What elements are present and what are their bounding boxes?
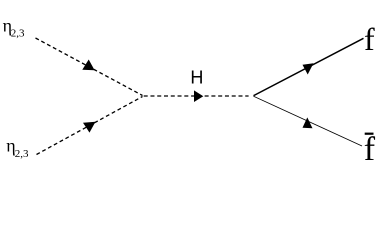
wire: top-left dashed propagator (eta to left vertex) [36, 38, 143, 96]
label eta_2,3 (top incoming scalar) [3, 16, 25, 40]
overbar of f-bar [365, 133, 374, 135]
svg-text:2,3: 2,3 [15, 148, 29, 160]
arrow on top-left propagator [82, 60, 94, 71]
label eta_2,3 (bottom incoming scalar) [6, 135, 29, 160]
wire: bottom-left dashed propagator (eta to left vertex) [37, 97, 143, 155]
svg-text:2,3: 2,3 [11, 28, 25, 40]
arrow on H propagator [194, 90, 203, 102]
svg-text:f: f [364, 21, 375, 57]
arrow on bottom-left propagator [83, 122, 96, 133]
arrow on bottom-right antifermion line [303, 117, 313, 128]
wire: bottom-right solid antifermion line (to f-bar) [254, 96, 363, 146]
wire: top-right solid fermion line (to f) [254, 38, 364, 95]
svg-text:f: f [364, 131, 376, 168]
wire: horizontal dashed H propagator [144, 95, 249, 97]
arrow on top-right fermion line [303, 63, 314, 74]
svg-text:H: H [190, 68, 203, 88]
